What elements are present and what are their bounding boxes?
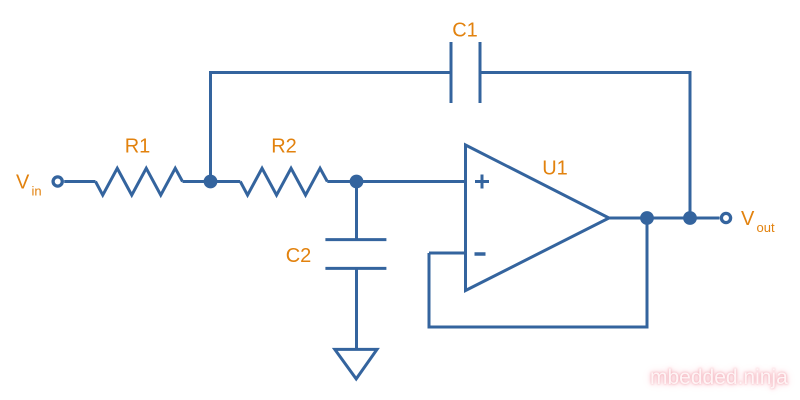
op-amp minus symbol [475, 252, 486, 256]
svg-text:out: out [757, 220, 775, 235]
svg-text:in: in [32, 184, 42, 199]
wire C2 to ground [355, 268, 358, 349]
svg-text:C1: C1 [452, 19, 478, 41]
wire input lead [64, 180, 95, 183]
ground [335, 349, 377, 379]
svg-text:U1: U1 [542, 157, 568, 179]
C1 junction dot [683, 211, 697, 225]
svg-text:R1: R1 [125, 136, 151, 158]
wire node B down to C2 [355, 182, 358, 240]
node B junction dot [350, 175, 364, 189]
wire inverting input lead [429, 252, 466, 255]
capacitor C1 left plate [450, 42, 453, 103]
wire R2 to op-amp non-inverting input [327, 180, 465, 183]
wire feedback loop [429, 218, 647, 327]
capacitor C2 bottom plate [325, 267, 386, 270]
wire C1 feedback top loop right [480, 73, 690, 219]
op-amp U1 body [466, 145, 610, 291]
feedback junction dot [640, 211, 654, 225]
node A junction dot [204, 175, 218, 189]
wire R1 to R2 through node A [183, 180, 241, 183]
capacitor C1 right plate [479, 42, 482, 103]
input terminal Vin [53, 177, 62, 186]
wire C1 feedback top loop left [211, 73, 452, 182]
op-amp plus symbol [475, 180, 489, 183]
capacitor C2 top plate [325, 238, 386, 241]
watermark mbedded.ninja [650, 366, 800, 390]
svg-text:V: V [16, 172, 30, 194]
resistor R2 [240, 168, 327, 195]
svg-text:V: V [741, 208, 755, 230]
wire op-amp output [609, 217, 720, 220]
svg-text:R2: R2 [271, 136, 297, 158]
resistor R1 [96, 168, 183, 195]
svg-text:C2: C2 [286, 245, 312, 267]
output terminal Vout [721, 213, 730, 222]
